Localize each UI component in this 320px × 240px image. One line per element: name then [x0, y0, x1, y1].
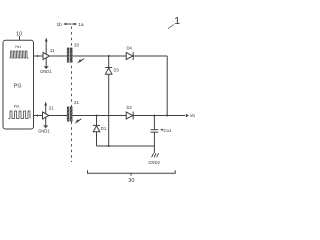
label 20 [74, 43, 80, 48]
waveform Pb1 (square pulses) [9, 111, 31, 119]
wire buffer 11 to capacitor 20 [50, 55, 68, 57]
label Co1 [164, 128, 172, 133]
label D1 [101, 126, 107, 131]
arrow 1b (pointing left) [65, 23, 71, 25]
node at D3 branch [108, 55, 110, 57]
capacitor Co1 plates [151, 129, 159, 131]
svg-text:PG: PG [14, 83, 22, 89]
diode D4 [126, 53, 133, 60]
dashed isolation boundary line [71, 27, 73, 163]
isolation capacitor 21 plates [67, 107, 70, 122]
label 11 [50, 48, 55, 53]
arrow 1a (pointing right) [72, 23, 75, 25]
node at corner junction [166, 115, 168, 117]
ground symbol GND1 (bottom) [43, 125, 48, 128]
ground symbol GND1 (top) [44, 66, 49, 69]
label PG [14, 83, 22, 89]
wire capacitor 20 to diode D4 [73, 55, 126, 57]
ground stub buffer 21 [45, 117, 47, 125]
wire buffer 21 to capacitor 21 [49, 115, 67, 117]
D3 upper lead [108, 56, 110, 67]
svg-text:Pb1: Pb1 [14, 105, 20, 109]
leader line for label 10 [19, 36, 21, 40]
label D3 [114, 68, 120, 73]
svg-text:Pa1: Pa1 [15, 45, 21, 49]
label 21 (capacitor) [74, 100, 80, 105]
D1 lower lead [96, 132, 98, 146]
pulse generator box 10 [3, 40, 34, 129]
svg-text:Co1: Co1 [164, 128, 172, 133]
diode D3 [105, 67, 112, 69]
ground symbol GND2 [152, 153, 154, 157]
wire box to buffer 21 [34, 115, 43, 117]
leader arrow for Co1 [162, 129, 163, 131]
wire D4 to right corner [133, 55, 167, 57]
hatch texture capacitor 21 [67, 108, 73, 121]
Co1 lower lead [153, 132, 155, 146]
svg-text:GND2: GND2 [148, 160, 160, 165]
label 1b [57, 22, 63, 28]
wire capacitor 21 to diode D2 [73, 115, 126, 117]
svg-text:Vo: Vo [190, 113, 196, 118]
wire D2 to output [133, 115, 185, 117]
svg-text:21: 21 [74, 100, 80, 105]
right vertical wire [166, 56, 168, 116]
label D4 [127, 45, 133, 50]
supply arrow for buffer 11 [45, 41, 47, 55]
svg-text:D1: D1 [101, 126, 107, 131]
svg-text:11: 11 [50, 48, 55, 53]
node at Co1 branch [153, 115, 155, 117]
svg-text:1: 1 [174, 15, 180, 27]
svg-text:30: 30 [128, 178, 134, 184]
label 1a [78, 22, 84, 28]
leader line for label 1 [168, 25, 174, 29]
buffer amplifier 11 [43, 53, 50, 60]
node at D1 branch [96, 115, 98, 117]
Co1 upper lead [153, 116, 155, 130]
label Pa1 [15, 45, 21, 49]
label 30 [128, 178, 134, 184]
signal arrowhead top wire [37, 55, 39, 57]
isolation capacitor 20 plates [67, 48, 70, 63]
svg-text:GND1: GND1 [40, 69, 52, 74]
label GND2 [148, 160, 160, 165]
buffer amplifier 21 [43, 112, 50, 119]
overall circuit label 1 [174, 15, 180, 27]
hatch texture capacitor 20 [67, 49, 73, 62]
svg-text:D4: D4 [127, 45, 133, 50]
GND2 stub [153, 146, 155, 153]
label GND1 top [40, 69, 52, 74]
label GND1 bottom [38, 129, 50, 134]
svg-text:D2: D2 [127, 105, 133, 110]
label 21 [49, 106, 55, 111]
node rail D3 [108, 145, 110, 147]
svg-text:21: 21 [49, 106, 55, 111]
svg-text:1a: 1a [78, 22, 84, 28]
diode D2 [126, 112, 133, 119]
wire box to buffer 11 [34, 55, 44, 57]
label Pb1 [14, 105, 20, 109]
ground stub buffer 11 [45, 58, 47, 67]
bottom rail wire [97, 145, 155, 147]
label 10 [16, 31, 22, 37]
output terminal arrowhead [186, 114, 189, 118]
label D2 [127, 105, 133, 110]
leader arrow at capacitor 20 [80, 59, 85, 62]
leader arrow at capacitor 21 [77, 119, 81, 122]
waveform Pa1 (burst pulses) [10, 51, 29, 58]
D3 lower lead [108, 74, 110, 146]
D1 upper lead [96, 116, 98, 126]
underbrace 30 [88, 170, 176, 173]
svg-text:GND1: GND1 [38, 129, 50, 134]
supply arrow for buffer 21 [45, 105, 47, 114]
label Vo [190, 113, 196, 118]
signal arrowhead bottom wire [37, 114, 39, 116]
svg-text:1b: 1b [57, 22, 63, 28]
diode D1 [93, 124, 100, 126]
svg-text:20: 20 [74, 43, 80, 48]
underbrace center tick [130, 173, 132, 176]
svg-text:D3: D3 [114, 68, 120, 73]
